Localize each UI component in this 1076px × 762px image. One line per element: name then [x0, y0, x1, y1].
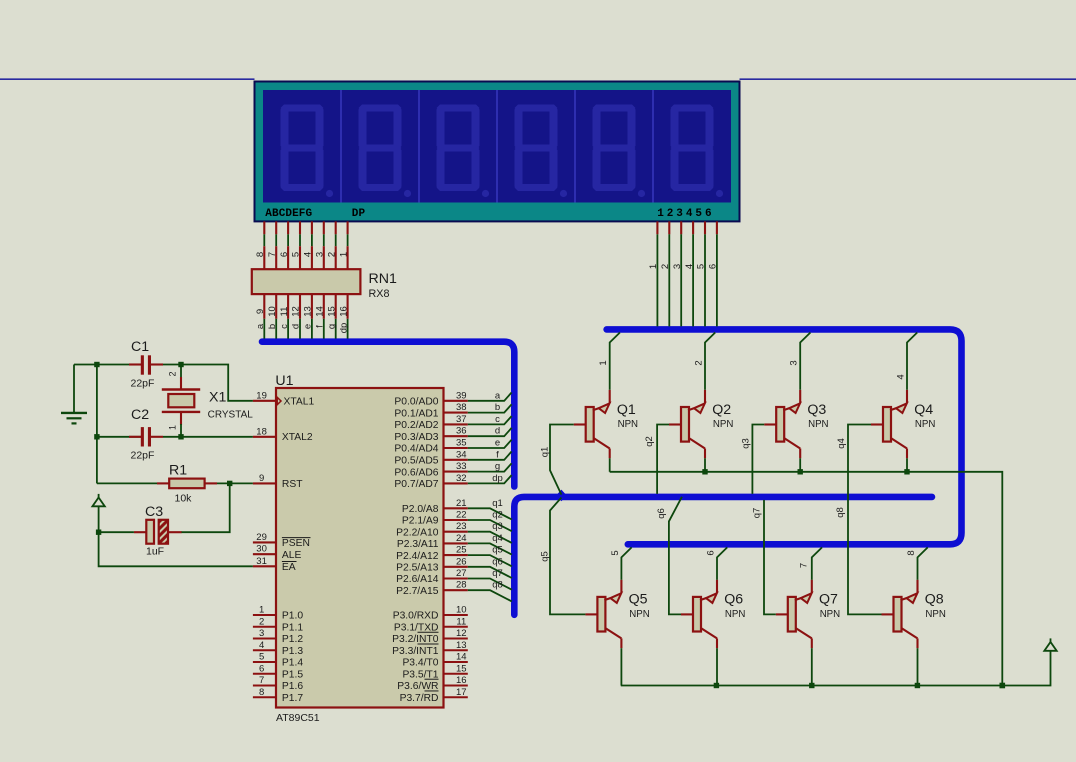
svg-text:q3: q3 — [492, 521, 503, 532]
svg-text:q1: q1 — [540, 447, 551, 458]
svg-text:EA: EA — [282, 562, 296, 573]
wire net q8 to bus — [468, 590, 512, 601]
wire display pin 6 to RN1 — [323, 234, 325, 246]
svg-text:X1: X1 — [209, 390, 226, 406]
wire display pin 4 to RN1 — [299, 234, 301, 246]
svg-text:16: 16 — [456, 675, 467, 686]
svg-text:P3.0/RXD: P3.0/RXD — [393, 611, 439, 622]
wire RST node down to C3 — [181, 483, 230, 532]
svg-text:35: 35 — [456, 438, 467, 449]
crystal X1 — [162, 390, 200, 412]
P2.7 pin stub — [444, 589, 468, 591]
svg-text:1: 1 — [168, 425, 178, 430]
display segment pin 6 stub — [323, 221, 325, 234]
svg-text:NPN: NPN — [629, 609, 649, 620]
svg-text:8: 8 — [259, 687, 264, 698]
svg-text:34: 34 — [456, 449, 467, 460]
svg-text:P3.4/T0: P3.4/T0 — [402, 658, 438, 669]
svg-text:3: 3 — [259, 628, 264, 639]
svg-text:b: b — [495, 402, 500, 413]
svg-text:q2: q2 — [644, 436, 655, 447]
svg-text:C3: C3 — [145, 504, 163, 520]
svg-text:29: 29 — [256, 532, 267, 543]
svg-text:7: 7 — [267, 252, 278, 257]
svg-text:22pF: 22pF — [131, 378, 155, 390]
ground symbol — [61, 365, 87, 424]
P2.6 pin stub — [444, 577, 468, 579]
RN1 pin 3 stub — [323, 246, 325, 269]
wire RN1 pin 10 to bus — [275, 319, 277, 339]
wire Q1 emitter to rail — [609, 458, 611, 472]
svg-text:c: c — [279, 324, 290, 329]
svg-text:C2: C2 — [131, 407, 149, 423]
junction power node — [96, 530, 101, 535]
display segment pin 4 stub — [299, 221, 301, 234]
P2.0 pin stub — [444, 507, 468, 509]
svg-text:XTAL1: XTAL1 — [284, 396, 315, 407]
RST pin stub — [253, 482, 276, 484]
wire RN1 pin 14 to bus — [323, 319, 325, 339]
svg-text:36: 36 — [456, 426, 467, 437]
P1.6 pin stub — [253, 684, 276, 686]
wire net c to bus — [468, 416, 512, 424]
wire net f to bus — [468, 452, 512, 460]
P1.0 pin stub — [253, 614, 276, 616]
svg-text:P1.6: P1.6 — [282, 681, 303, 692]
svg-text:q4: q4 — [836, 438, 847, 449]
svg-text:q7: q7 — [492, 568, 503, 579]
svg-text:12: 12 — [291, 306, 302, 317]
svg-text:10: 10 — [456, 605, 467, 616]
P3.1 pin stub — [444, 626, 468, 628]
svg-text:28: 28 — [456, 580, 467, 591]
display segment pin 7 stub — [335, 221, 337, 234]
P3.2 pin stub — [444, 637, 468, 639]
RN1 pin 5 stub — [299, 246, 301, 269]
svg-text:19: 19 — [256, 390, 267, 401]
svg-text:P3.3/INT1: P3.3/INT1 — [392, 646, 439, 657]
wire emitter rail Q5-Q8 — [621, 651, 1051, 685]
wire net q3 to bus — [468, 532, 512, 543]
wire net q6 Q6 base — [669, 497, 682, 615]
svg-text:P0.5/AD5: P0.5/AD5 — [394, 456, 438, 467]
XTAL1 pin stub — [253, 400, 276, 402]
svg-text:9: 9 — [255, 309, 266, 314]
svg-text:q7: q7 — [752, 508, 763, 519]
svg-text:8: 8 — [906, 550, 917, 555]
XTAL1 clock marker — [277, 397, 281, 404]
svg-text:g: g — [326, 324, 337, 329]
svg-text:6: 6 — [259, 663, 264, 674]
display digit pin 5 stub — [704, 221, 706, 234]
svg-text:P2.2/A10: P2.2/A10 — [396, 527, 439, 538]
transistor Q3 body — [764, 390, 800, 459]
wire left column — [96, 365, 98, 484]
wire display pin 5 to RN1 — [311, 234, 313, 246]
junction Q6 emitter — [714, 683, 719, 688]
junction crystal top node — [178, 362, 183, 367]
svg-text:10k: 10k — [175, 493, 193, 505]
wire Q4 emitter to rail — [906, 458, 908, 472]
digit 6 segments — [671, 105, 724, 198]
bus q-net horizontal and vertical — [514, 497, 932, 615]
svg-text:q5: q5 — [492, 545, 503, 556]
RN1 pin 16 stub — [347, 294, 349, 319]
wire net q5 Q5 base — [550, 498, 585, 615]
svg-text:1: 1 — [259, 605, 264, 616]
power symbol left — [92, 494, 104, 532]
wire display digit 5 to bus — [704, 234, 706, 326]
junction Q4 emitter — [904, 469, 909, 474]
wire net q7 Q7 base — [764, 500, 776, 615]
svg-text:q5: q5 — [540, 551, 551, 562]
svg-text:Q5: Q5 — [629, 592, 648, 608]
P0.7 pin stub — [444, 482, 468, 484]
P2.5 pin stub — [444, 566, 468, 568]
svg-text:P0.0/AD0: P0.0/AD0 — [394, 397, 438, 408]
P3.7 pin stub — [444, 696, 468, 698]
wire ground to C1 — [74, 364, 129, 366]
digit 4 segments — [515, 105, 568, 198]
svg-text:16: 16 — [338, 306, 349, 317]
junction Q2 emitter — [702, 469, 707, 474]
RN1 pin 11 stub — [287, 294, 289, 319]
svg-text:P2.6/A14: P2.6/A14 — [396, 574, 439, 585]
capacitor C2 — [97, 427, 163, 446]
display digit pin 3 stub — [680, 221, 682, 234]
P1.5 pin stub — [253, 673, 276, 675]
RN1 pin 9 stub — [263, 294, 265, 319]
wire Q3 emitter to rail — [799, 458, 801, 472]
wire RN1 pin 15 to bus — [335, 319, 337, 339]
svg-text:4: 4 — [684, 264, 695, 269]
wire RN1 pin 13 to bus — [311, 319, 313, 339]
svg-text:NPN: NPN — [820, 609, 840, 620]
svg-text:18: 18 — [256, 426, 267, 437]
svg-text:P0.1/AD1: P0.1/AD1 — [394, 408, 438, 419]
svg-text:5: 5 — [696, 264, 707, 269]
transistor Q5 body — [585, 580, 621, 649]
svg-text:e: e — [303, 324, 314, 329]
svg-text:dp: dp — [492, 473, 503, 484]
svg-text:33: 33 — [456, 461, 467, 472]
RN1 pin 6 stub — [287, 246, 289, 269]
svg-text:39: 39 — [456, 390, 467, 401]
svg-text:NPN: NPN — [915, 419, 935, 430]
wire net q1 Q1 base — [550, 425, 574, 495]
junction Q7 emitter — [809, 683, 814, 688]
P1.1 pin stub — [253, 626, 276, 628]
svg-text:g: g — [495, 461, 500, 472]
resistor R1 — [157, 479, 217, 489]
svg-text:14: 14 — [315, 306, 326, 317]
wire net e to bus — [468, 440, 512, 448]
wire C2 to XTAL2 — [163, 436, 253, 438]
svg-text:27: 27 — [456, 568, 467, 579]
transistor Q1 body — [574, 390, 610, 459]
wire bus to Q2 collector — [705, 333, 715, 390]
RN1 pin 7 stub — [275, 246, 277, 269]
svg-text:26: 26 — [456, 556, 467, 567]
P2.1 pin stub — [444, 519, 468, 521]
transistor Q6 body — [681, 580, 717, 649]
wire display pin 3 to RN1 — [287, 234, 289, 246]
wire node to crystal top — [180, 366, 182, 378]
svg-text:P2.5/A13: P2.5/A13 — [396, 563, 439, 574]
svg-text:f: f — [496, 449, 499, 460]
svg-text:ABCDEFG: ABCDEFG — [265, 208, 312, 220]
svg-text:9: 9 — [259, 473, 264, 484]
svg-text:AT89C51: AT89C51 — [276, 712, 320, 724]
resistor network RN1 — [252, 269, 361, 294]
svg-text:P0.2/AD2: P0.2/AD2 — [394, 420, 438, 431]
digit 3 segments — [437, 105, 490, 198]
bus RN1 to segment-net vertical bus — [262, 342, 514, 487]
wire net b to bus — [468, 404, 512, 412]
wire bus to Q7 collector — [812, 547, 822, 579]
P0.1 pin stub — [444, 412, 468, 414]
svg-text:P1.5: P1.5 — [282, 669, 303, 680]
wire net q5 to bus — [468, 555, 512, 566]
wire RN1 pin 9 to bus — [263, 319, 265, 339]
PSEN pin stub — [253, 541, 276, 543]
wire net d to bus — [468, 428, 512, 436]
junction Q8 emitter — [915, 683, 920, 688]
svg-text:11: 11 — [456, 616, 466, 627]
svg-text:b: b — [267, 324, 278, 329]
svg-text:Q3: Q3 — [807, 402, 826, 418]
display digit pin 2 stub — [668, 221, 670, 234]
svg-text:q8: q8 — [835, 507, 846, 518]
digit 5 segments — [593, 105, 646, 198]
svg-text:3: 3 — [315, 252, 326, 257]
P2.3 pin stub — [444, 542, 468, 544]
svg-text:1: 1 — [598, 360, 609, 365]
wire net q1 to bus — [468, 508, 512, 519]
RN1 pin 2 stub — [335, 246, 337, 269]
RN1 pin 4 stub — [311, 246, 313, 269]
svg-text:Q8: Q8 — [925, 592, 944, 608]
svg-text:2: 2 — [259, 616, 264, 627]
P2.4 pin stub — [444, 554, 468, 556]
svg-text:P1.7: P1.7 — [282, 693, 303, 704]
wire display pin 1 to RN1 — [263, 234, 265, 246]
svg-text:32: 32 — [456, 473, 467, 484]
svg-text:2: 2 — [168, 371, 178, 376]
svg-text:4: 4 — [259, 640, 264, 651]
P0.6 pin stub — [444, 471, 468, 473]
display segment pin 1 stub — [263, 221, 265, 234]
svg-text:17: 17 — [456, 687, 467, 698]
svg-text:P0.7/AD7: P0.7/AD7 — [394, 479, 438, 490]
svg-text:6: 6 — [279, 252, 290, 257]
svg-text:15: 15 — [456, 663, 467, 674]
sheet border line — [0, 78, 255, 80]
transistor Q4 body — [871, 390, 907, 459]
svg-text:3: 3 — [789, 360, 800, 365]
svg-text:13: 13 — [456, 640, 467, 651]
P3.0 pin stub — [444, 614, 468, 616]
RN1 pin 13 stub — [311, 294, 313, 319]
svg-text:38: 38 — [456, 402, 467, 413]
wire bus to Q6 collector — [717, 547, 727, 579]
svg-text:a: a — [495, 390, 501, 401]
wire bus to Q3 collector — [800, 333, 810, 390]
wire C3 to power node — [99, 531, 134, 533]
wire R1 to RST — [217, 482, 253, 484]
junction C2 left — [94, 434, 99, 439]
svg-text:8: 8 — [255, 252, 266, 257]
wire net q3 Q3 base — [752, 425, 764, 494]
svg-text:Q6: Q6 — [724, 592, 743, 608]
wire column to R1 — [97, 482, 157, 484]
EA pin stub — [253, 565, 276, 567]
svg-text:U1: U1 — [275, 373, 293, 389]
svg-text:Q2: Q2 — [712, 402, 731, 418]
wire net g to bus — [468, 463, 512, 471]
wire bus to Q4 collector — [907, 333, 917, 390]
transistor Q2 body — [669, 390, 705, 459]
RN1 pin 14 stub — [323, 294, 325, 319]
svg-text:6: 6 — [706, 550, 717, 555]
svg-text:P1.4: P1.4 — [282, 658, 303, 669]
svg-text:3: 3 — [672, 264, 683, 269]
svg-text:23: 23 — [456, 521, 467, 532]
wire C1 to XTAL1 — [163, 365, 253, 401]
bus digit loop top right — [607, 329, 962, 544]
bus junction diamond — [556, 490, 566, 502]
junction crystal bottom node — [178, 434, 183, 439]
svg-text:P1.1: P1.1 — [282, 622, 303, 633]
P3.3 pin stub — [444, 649, 468, 651]
svg-text:RX8: RX8 — [369, 288, 390, 300]
P1.3 pin stub — [253, 649, 276, 651]
P0.0 pin stub — [444, 400, 468, 402]
svg-text:P2.1/A9: P2.1/A9 — [402, 516, 439, 527]
transistor Q8 body — [882, 580, 918, 649]
P1.7 pin stub — [253, 696, 276, 698]
display segment pin 8 stub — [347, 221, 349, 234]
junction left column top — [94, 362, 99, 367]
svg-text:NPN: NPN — [713, 419, 733, 430]
display segment pin 2 stub — [275, 221, 277, 234]
capacitor C3 — [134, 520, 182, 544]
7-segment display body — [255, 82, 740, 222]
svg-text:22: 22 — [456, 510, 467, 521]
display digit separators — [341, 90, 653, 203]
svg-text:P2.3/A11: P2.3/A11 — [397, 539, 439, 550]
wire bus to Q1 collector — [610, 333, 620, 390]
P2.2 pin stub — [444, 531, 468, 533]
svg-text:q6: q6 — [656, 508, 667, 519]
P1.4 pin stub — [253, 661, 276, 663]
svg-text:P3.7/RD: P3.7/RD — [400, 693, 439, 704]
svg-text:P1.0: P1.0 — [282, 611, 303, 622]
RN1 pin 8 stub — [263, 246, 265, 269]
svg-text:d: d — [495, 426, 500, 437]
power symbol right — [1044, 638, 1056, 650]
svg-text:13: 13 — [303, 306, 314, 317]
svg-text:Q7: Q7 — [819, 592, 838, 608]
svg-text:11: 11 — [279, 307, 290, 317]
wire net q4 q8 column — [848, 425, 882, 615]
P3.5 pin stub — [444, 673, 468, 675]
svg-text:15: 15 — [326, 306, 337, 317]
svg-text:P0.6/AD6: P0.6/AD6 — [394, 467, 438, 478]
svg-text:q2: q2 — [492, 510, 503, 521]
svg-text:10: 10 — [267, 306, 278, 317]
svg-text:C1: C1 — [131, 339, 149, 355]
svg-text:12: 12 — [456, 628, 467, 639]
svg-text:5: 5 — [291, 252, 302, 257]
junction rail corner — [1000, 683, 1006, 689]
svg-text:4: 4 — [896, 374, 907, 379]
svg-text:5: 5 — [610, 550, 621, 555]
P3.6 pin stub — [444, 684, 468, 686]
P1.2 pin stub — [253, 637, 276, 639]
wire RN1 pin 16 to bus — [347, 319, 349, 339]
svg-text:NPN: NPN — [618, 419, 638, 430]
display digit pin 4 stub — [692, 221, 694, 234]
wire emitter rail Q1-Q4 — [610, 472, 1003, 686]
wire bus to Q8 collector — [918, 547, 928, 579]
junction Q3 emitter — [798, 469, 803, 474]
svg-text:dp: dp — [338, 323, 349, 334]
svg-text:R1: R1 — [169, 462, 187, 478]
svg-text:5: 5 — [259, 652, 264, 663]
svg-text:31: 31 — [256, 556, 267, 567]
display screen — [263, 90, 731, 203]
wire bus to Q5 collector — [621, 547, 631, 579]
capacitor C1 — [129, 355, 163, 374]
wire net q6 to bus — [468, 567, 512, 578]
svg-text:q1: q1 — [492, 498, 503, 509]
RN1 pin 1 stub — [347, 246, 349, 269]
wire display digit 1 to bus — [656, 234, 658, 326]
display segment pin 3 stub — [287, 221, 289, 234]
wire display digit 2 to bus — [668, 234, 670, 326]
svg-text:PSEN: PSEN — [282, 538, 310, 549]
svg-text:NPN: NPN — [725, 609, 745, 620]
svg-text:ALE: ALE — [282, 550, 302, 561]
wire Q5 emitter to rail — [620, 648, 622, 685]
svg-text:P0.4/AD4: P0.4/AD4 — [394, 444, 438, 455]
wire display pin 7 to RN1 — [335, 234, 337, 246]
display segment pin 5 stub — [311, 221, 313, 234]
svg-text:d: d — [291, 324, 302, 329]
svg-text:25: 25 — [456, 545, 467, 556]
wire display digit 3 to bus — [680, 234, 682, 326]
display digit pin 6 stub — [716, 221, 718, 234]
wire Q8 emitter to rail — [917, 648, 919, 685]
svg-text:Q4: Q4 — [914, 402, 933, 418]
wire power node to EA — [99, 532, 253, 566]
svg-text:37: 37 — [456, 414, 467, 425]
ALE pin stub — [253, 553, 276, 555]
RN1 pin 12 stub — [299, 294, 301, 319]
svg-text:q8: q8 — [492, 580, 503, 591]
svg-text:RN1: RN1 — [369, 271, 397, 287]
svg-text:1uF: 1uF — [146, 546, 164, 558]
svg-text:7: 7 — [799, 563, 810, 568]
svg-text:P1.2: P1.2 — [282, 634, 303, 645]
svg-text:NPN: NPN — [808, 419, 828, 430]
wire net q2 to bus — [468, 520, 512, 531]
wire net a to bus — [468, 393, 512, 401]
display digit pin 1 stub — [656, 221, 658, 234]
wire Q6 emitter to rail — [716, 648, 718, 685]
svg-text:4: 4 — [303, 252, 314, 257]
